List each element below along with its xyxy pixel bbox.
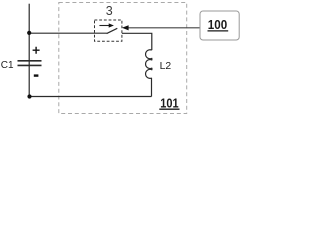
node A junction dot (top-left) — [27, 31, 31, 35]
switch S dashed box 3 — [95, 20, 122, 41]
callout box 100 — [200, 11, 239, 40]
wire: bottom rail — [29, 96, 151, 98]
enclosure dashed box (circuit block outline) — [59, 3, 187, 114]
switch blade — [107, 28, 118, 33]
svg-text:L2: L2 — [160, 61, 172, 72]
svg-text:C1: C1 — [1, 60, 14, 71]
wire: top rail left segment (node A to switch pivot) — [29, 32, 107, 34]
svg-text:101: 101 — [160, 96, 178, 111]
wire: left vertical (top stub through C1 down to bottom rail) — [28, 4, 30, 97]
svg-text:3: 3 — [106, 4, 113, 18]
leader arrow from 100 box — [128, 27, 200, 29]
capacitor C1 polarity plus sign — [33, 47, 40, 54]
wire: L2 bottom lead — [151, 78, 153, 97]
node B junction dot (bottom-left) — [27, 94, 31, 98]
svg-text:100: 100 — [208, 17, 227, 32]
wire: top rail right segment with corner down to L2 — [122, 33, 152, 50]
capacitor C1 polarity minus sign — [34, 74, 39, 76]
capacitor C1 plates — [18, 61, 42, 66]
inductor L2 coil — [146, 50, 152, 79]
switch actuation arrow (inside box) — [99, 25, 109, 27]
